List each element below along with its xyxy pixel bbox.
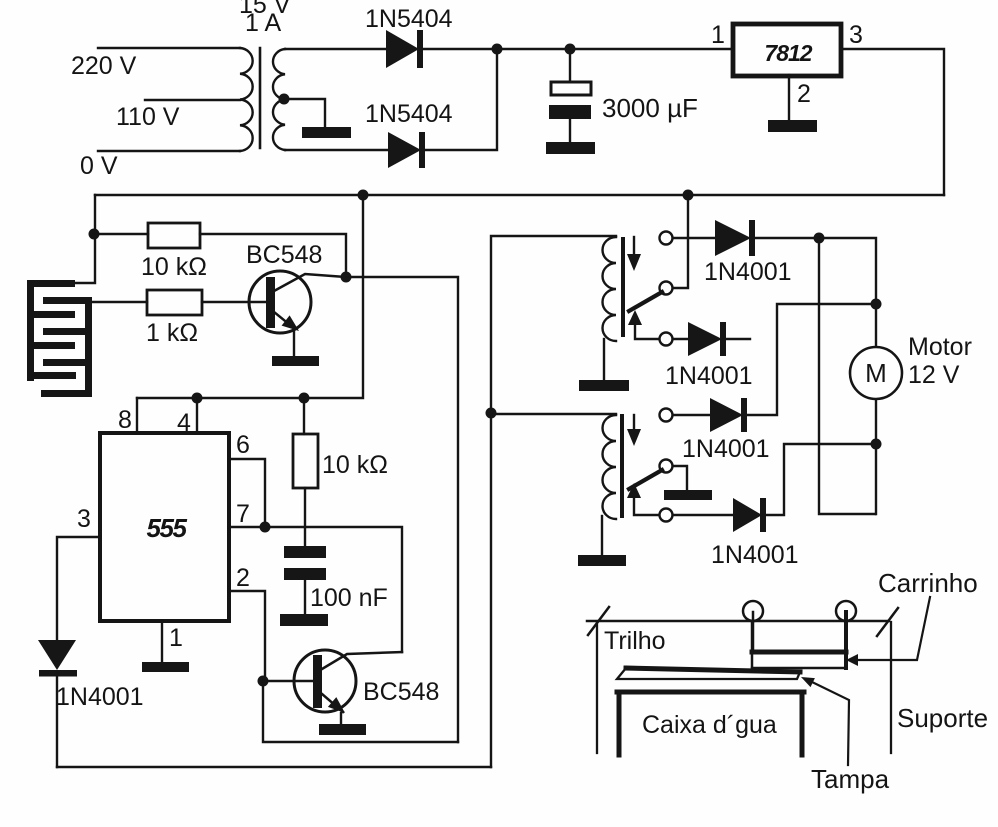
diode D6 1N4001 (RL2 NC)	[710, 304, 876, 432]
label Tampa	[811, 764, 890, 794]
wire +12V rail	[95, 194, 944, 196]
svg-text:Carrinho: Carrinho	[878, 568, 978, 598]
sensor electrode comb right	[41, 297, 92, 397]
diode D4 1N4001 (RL1 NC)	[715, 220, 819, 256]
relay RL2 armature arrow down	[627, 415, 641, 446]
wire RL2 coil to ground	[601, 516, 603, 555]
relay RL2 coil	[603, 415, 617, 519]
svg-text:2: 2	[797, 80, 811, 108]
svg-text:1N4001: 1N4001	[682, 435, 770, 463]
wire motor bypass	[819, 238, 875, 514]
node motor top junction	[871, 299, 882, 310]
mech carrinho leader arrow	[846, 597, 930, 666]
ground center tap	[302, 127, 351, 138]
svg-text:10 kΩ: 10 kΩ	[141, 253, 207, 281]
diode D2 1N5404 bottom	[388, 132, 425, 168]
pin 2 label 7812	[797, 80, 811, 108]
svg-text:12 V: 12 V	[908, 361, 960, 389]
svg-text:6: 6	[236, 431, 250, 459]
svg-text:Caixa d´gua: Caixa d´gua	[642, 711, 777, 739]
svg-text:7: 7	[236, 500, 250, 528]
ground Q2 emitter	[319, 724, 366, 735]
pin 2 label 555	[236, 564, 250, 592]
relay RL2 contact common	[660, 460, 688, 491]
wire bottom return	[57, 766, 491, 768]
svg-text:BC548: BC548	[246, 241, 322, 269]
pin 2 wire 555	[229, 591, 265, 681]
label D6 1N4001	[682, 435, 770, 463]
wire 7812 pin3 output	[841, 49, 944, 195]
relay RL2 switch arm	[629, 470, 662, 489]
relay RL1 core	[621, 239, 625, 335]
svg-text:7812: 7812	[764, 40, 812, 66]
label R3 10 kOhm	[322, 451, 388, 479]
relay RL1 coil	[603, 237, 617, 341]
mech rail right tick	[877, 608, 898, 636]
svg-text:BC548: BC548	[363, 678, 439, 706]
wire 0V primary bottom	[98, 150, 240, 152]
relay RL2 contact NC	[660, 409, 711, 422]
pin 3 wire 555	[57, 537, 100, 640]
wire diode bottom output riser	[425, 49, 497, 150]
diode D3 1N4001 (pin3)	[38, 640, 77, 767]
diode D7 1N4001 (RL2 NO)	[733, 444, 876, 532]
svg-text:M: M	[865, 358, 887, 388]
ground capacitor C1	[546, 142, 595, 154]
svg-text:1N4001: 1N4001	[704, 258, 792, 286]
wire 7812 pin2 to ground	[788, 75, 790, 120]
svg-text:8: 8	[118, 406, 132, 434]
label Q2 BC548	[363, 678, 439, 706]
sensor electrode comb left	[27, 280, 76, 381]
mech wheel right	[836, 601, 856, 668]
diode D5 1N4001 (RL1 NO)	[688, 322, 750, 356]
regulator U2 7812	[733, 24, 841, 76]
node relay2 feed junction	[486, 408, 497, 419]
wire relay2 feed	[491, 413, 616, 415]
node rail junction A	[358, 190, 369, 201]
label 1 A (secondary current)	[245, 9, 281, 37]
svg-text:1 kΩ: 1 kΩ	[146, 319, 198, 347]
svg-text:1 A: 1 A	[245, 9, 281, 37]
svg-text:1N5404: 1N5404	[365, 5, 453, 33]
wire RL1 coil to ground	[603, 339, 605, 380]
label Trilho	[604, 627, 666, 655]
svg-text:3: 3	[77, 505, 91, 533]
ground RL2 common	[664, 490, 712, 500]
svg-text:Motor: Motor	[908, 333, 972, 361]
label 1N5404 top	[365, 5, 453, 33]
relay RL1 arrow up	[628, 310, 659, 339]
mech carriage (Carrinho) body	[752, 621, 846, 668]
mech lid (Tampa)	[617, 668, 800, 679]
svg-text:100 nF: 100 nF	[310, 584, 388, 612]
relay RL2 arrow up	[627, 483, 659, 515]
label D4 1N4001	[704, 258, 792, 286]
resistor R3 10 kOhm vertical	[293, 398, 318, 546]
relay RL1 switch arm	[629, 292, 662, 311]
pin 1 label 555	[169, 624, 183, 652]
svg-text:Suporte: Suporte	[897, 703, 988, 733]
wire motor bottom	[875, 400, 877, 514]
transformer T1 core	[259, 48, 262, 148]
pin 4 label 555	[177, 409, 191, 437]
svg-text:2: 2	[236, 564, 250, 592]
mech rail left tick	[588, 607, 609, 635]
node 220 V label	[71, 52, 137, 80]
label D7 1N4001	[711, 541, 799, 569]
wire secondary bottom to diode	[285, 149, 388, 151]
label 15 V (secondary voltage)	[239, 0, 291, 19]
ground RL1 coil	[579, 380, 629, 391]
wire Q2 base loop	[263, 681, 458, 742]
transformer T1 primary winding	[240, 48, 253, 151]
pin 8 wire 555	[136, 398, 138, 433]
svg-text:555: 555	[147, 513, 188, 543]
svg-text:10 kΩ: 10 kΩ	[322, 451, 388, 479]
wire rail to 555 top pins	[137, 195, 363, 398]
transistor Q1 BC548	[249, 271, 346, 356]
label 1N5404 bottom	[365, 100, 453, 128]
relay RL1 contact NO	[660, 333, 689, 346]
svg-text:1N4001: 1N4001	[56, 683, 144, 711]
node pin4 junction	[192, 393, 203, 404]
svg-text:1N4001: 1N4001	[665, 362, 753, 390]
wire diode top output	[423, 48, 733, 50]
wire Q1 collector to right drop	[346, 277, 458, 742]
ground Q1 emitter	[272, 356, 319, 366]
label Suporte	[897, 703, 988, 733]
node junction top-left	[492, 44, 503, 55]
node 110 V label	[116, 103, 180, 131]
pin 6 label 555	[236, 431, 250, 459]
svg-text:1N4001: 1N4001	[711, 541, 799, 569]
wire relay feed vertical	[491, 236, 616, 767]
svg-text:Trilho: Trilho	[604, 627, 666, 655]
label Caixa d'gua	[642, 711, 777, 739]
pin 6 wire 555	[229, 459, 265, 527]
label D5 1N4001	[665, 362, 753, 390]
relay RL2 contact NO	[660, 509, 734, 522]
node junction capacitor top	[565, 44, 576, 55]
svg-text:Tampa: Tampa	[811, 764, 890, 794]
svg-text:3000 µF: 3000 µF	[602, 93, 698, 123]
ground RL2 coil	[578, 555, 626, 566]
relay RL1 contact common	[660, 195, 689, 295]
node center tap junction	[279, 94, 290, 105]
capacitor C1 3000uF	[549, 49, 591, 142]
diode D1 1N5404 top	[386, 30, 423, 68]
svg-text:110 V: 110 V	[116, 103, 180, 131]
mech rail line (Trilho)	[587, 620, 889, 623]
node 0 V label	[80, 152, 118, 180]
node diode D4 output junction	[814, 233, 825, 244]
mech wheel left	[743, 601, 763, 652]
wire motor top feed	[819, 238, 876, 346]
pin 3 label 555	[77, 505, 91, 533]
resistor R1 10 kOhm	[94, 223, 346, 277]
relay RL2 core	[620, 416, 624, 516]
node R3 feed junction	[299, 393, 310, 404]
motor M1	[850, 347, 902, 399]
label 3000 uF	[602, 93, 698, 123]
svg-text:0 V: 0 V	[80, 152, 118, 180]
mech tank (Caixa d'gua)	[617, 692, 804, 755]
wire secondary top to diode	[285, 48, 386, 50]
svg-text:1: 1	[711, 21, 725, 49]
mech right support line (Suporte)	[890, 622, 892, 753]
svg-text:1: 1	[169, 624, 183, 652]
wire center tap to ground	[284, 99, 325, 127]
pin 1 label 7812	[711, 21, 725, 49]
node pin6-pin7 junction	[260, 522, 271, 533]
label R2 1 kOhm	[146, 319, 198, 347]
label Q1 BC548	[246, 241, 322, 269]
transformer T1 secondary winding	[273, 49, 285, 150]
pin 1 wire 555	[161, 621, 163, 662]
pin 8 label 555	[118, 406, 132, 434]
wire 220V primary top	[98, 47, 240, 49]
svg-text:1N5404: 1N5404	[365, 100, 453, 128]
wire rail left drop	[75, 195, 95, 283]
node Q1 collector junction	[341, 272, 352, 283]
relay RL1 contact NC	[660, 232, 716, 245]
ground 7812	[768, 120, 817, 132]
transistor Q2 BC548	[263, 650, 402, 724]
node Q2 base junction	[258, 676, 269, 687]
node rail junction B	[683, 190, 694, 201]
ground 555 pin1	[142, 662, 189, 672]
mech left support line	[596, 622, 598, 753]
pin 7 label 555	[236, 500, 250, 528]
node motor bottom junction	[871, 439, 882, 450]
pin 7 wire 555	[229, 527, 402, 652]
label R1 10 kOhm	[141, 253, 207, 281]
IC U1 555	[100, 433, 229, 621]
label D3 1N4001	[56, 683, 144, 711]
label Motor	[908, 333, 972, 361]
svg-text:3: 3	[849, 21, 863, 49]
wire 110V primary tap	[145, 99, 240, 101]
pin 4 wire 555	[196, 398, 198, 433]
mech tampa leader arrow	[801, 677, 849, 765]
pin 3 label 7812	[849, 21, 863, 49]
resistor R2 1 kOhm	[92, 290, 266, 315]
capacitor C2 100 nF	[284, 546, 326, 614]
svg-text:220 V: 220 V	[71, 52, 137, 80]
label 12 V	[908, 361, 960, 389]
svg-text:4: 4	[177, 409, 191, 437]
label C2 100 nF	[310, 584, 388, 612]
relay RL1 armature arrow down	[627, 237, 641, 271]
node junction R1 feed	[89, 229, 100, 240]
label Carrinho	[878, 568, 978, 598]
ground C2	[280, 614, 328, 626]
